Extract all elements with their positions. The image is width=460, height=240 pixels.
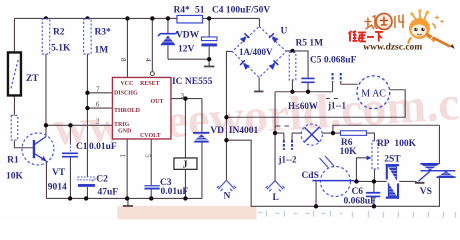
- wire wiper riser: [356, 158, 368, 182]
- svg-text:10K: 10K: [340, 147, 358, 157]
- capacitor C6: [366, 193, 380, 197]
- svg-text:R4*: R4*: [173, 5, 190, 15]
- svg-text:ZT: ZT: [26, 74, 39, 84]
- svg-text:VS: VS: [420, 187, 432, 197]
- wire bottom rail: [46, 197, 202, 199]
- wire lamp right: [322, 132, 340, 134]
- wire pin7: [87, 92, 112, 94]
- svg-text:j1--1: j1--1: [327, 100, 346, 110]
- resistor R6: [340, 131, 366, 136]
- wire enclosure left bottom: [226, 140, 439, 206]
- svg-text:VCC: VCC: [120, 81, 133, 87]
- wire pin8: [126, 18, 128, 77]
- wire pin5 C3: [150, 139, 152, 199]
- bridge diode D3: [240, 60, 250, 70]
- linkage marks j1-2: [275, 126, 289, 128]
- svg-text:RP 100K: RP 100K: [377, 139, 417, 149]
- zener VDW: [158, 31, 178, 45]
- svg-text:1: 1: [118, 154, 126, 158]
- svg-text:R1: R1: [7, 155, 19, 165]
- logo mascot: [408, 9, 455, 49]
- svg-text:www.dzsc.com: www.dzsc.com: [363, 42, 423, 52]
- resistor R3: [84, 19, 92, 54]
- svg-text:IN4001: IN4001: [229, 126, 259, 136]
- svg-text:GND: GND: [118, 128, 132, 134]
- wire VDW C4 bottom: [168, 58, 209, 60]
- svg-text:J: J: [182, 159, 187, 170]
- wire pin4: [151, 18, 153, 71]
- MAIN WIRES: [14, 18, 439, 206]
- wire j1-2 row: [275, 133, 301, 140]
- relay contact j1-1: [333, 73, 341, 82]
- transistor VT: [22, 133, 54, 165]
- svg-text:U: U: [280, 26, 287, 36]
- capacitor C3: [144, 185, 159, 187]
- svg-text:12V: 12V: [178, 44, 195, 54]
- wire C1 branch: [69, 125, 71, 198]
- terminal N: [217, 180, 236, 191]
- svg-text:7: 7: [96, 85, 100, 93]
- wire top rail: [14, 17, 259, 19]
- logo dzsc top right: [348, 9, 455, 52]
- wire VD riser: [201, 99, 203, 199]
- svg-text:N: N: [223, 192, 230, 202]
- svg-text:5: 5: [144, 154, 152, 158]
- logo weiku yixia red: [348, 31, 383, 42]
- svg-text:3: 3: [180, 92, 184, 100]
- wire bridge left to N line: [226, 51, 232, 180]
- wire lamp up branch: [333, 125, 440, 133]
- wire TRIG pin2: [46, 124, 113, 126]
- wire bridge right to C5: [286, 51, 308, 78]
- pin4 reset circle: [150, 72, 154, 76]
- wire C5 bottom stub: [307, 83, 309, 92]
- bridge rectifier: [232, 26, 286, 77]
- wire pin1 gnd: [126, 139, 128, 199]
- bridge diode D4: [268, 60, 278, 70]
- plus mark C2: [91, 178, 94, 181]
- wire gate row: [354, 180, 417, 182]
- svg-text:CVOLT: CVOLT: [140, 133, 161, 139]
- svg-text:1A/400V: 1A/400V: [239, 47, 273, 57]
- wire gate to VS: [415, 182, 425, 184]
- logo sparkles: [435, 15, 444, 23]
- svg-text:4: 4: [144, 58, 152, 62]
- capacitor C5: [301, 78, 314, 82]
- svg-text:47uF: 47uF: [97, 187, 118, 197]
- ground symbol under bridge: [254, 90, 263, 92]
- triac VS: [420, 163, 455, 178]
- ground symbol under rail: [123, 205, 133, 207]
- wire L line: [274, 92, 276, 181]
- wire emitter drop: [45, 161, 47, 199]
- ground symbol under C4: [204, 65, 215, 67]
- svg-text:VDW: VDW: [176, 30, 200, 40]
- svg-text:0.01uF: 0.01uF: [160, 187, 188, 197]
- svg-text:10K: 10K: [6, 171, 24, 181]
- hatch stripes on solid symbols: [161, 39, 454, 195]
- wire gate diagonal: [418, 171, 430, 181]
- capacitor C1: [62, 153, 78, 156]
- svg-text:L: L: [272, 193, 278, 203]
- wire CdS left lead: [315, 181, 317, 207]
- svg-text:C5 0.068uF: C5 0.068uF: [310, 55, 357, 65]
- resistor R5: [289, 52, 296, 79]
- svg-text:0.068uF: 0.068uF: [343, 196, 376, 206]
- wire VS top drop: [438, 125, 440, 163]
- IC NE555 box: [112, 77, 171, 139]
- watermark eeworld: [52, 75, 460, 155]
- wire bridge bottom stem: [258, 77, 260, 91]
- svg-text:VT: VT: [52, 168, 66, 178]
- wire R2 drop collector: [45, 54, 47, 137]
- wire C4 stem and ground stem: [208, 18, 210, 66]
- wire R5 bottom stub: [291, 80, 293, 92]
- svg-text:51: 51: [195, 5, 205, 15]
- svg-text:C1: C1: [76, 142, 88, 152]
- wire J coil line: [184, 99, 186, 199]
- wire R3 drop to C2: [86, 54, 88, 177]
- svg-text:C4 100uF/50V: C4 100uF/50V: [212, 5, 270, 15]
- wire R1 to base: [14, 140, 33, 147]
- relay coil J: [174, 158, 197, 171]
- svg-text:R5 1M: R5 1M: [295, 38, 323, 48]
- svg-text:TRIG: TRIG: [114, 122, 130, 128]
- svg-text:VD: VD: [210, 126, 224, 136]
- svg-text:9014: 9014: [48, 182, 67, 192]
- svg-text:1M: 1M: [94, 45, 108, 55]
- svg-text:R2: R2: [53, 27, 65, 37]
- svg-text:CdS: CdS: [301, 171, 318, 181]
- svg-text:DISCHG: DISCHG: [114, 90, 138, 96]
- wire pin6: [87, 107, 112, 109]
- wire R5 top stub: [291, 51, 293, 53]
- capacitor C4 electrolytic: [201, 37, 217, 47]
- svg-text:IC NE555: IC NE555: [172, 77, 213, 87]
- svg-text:6: 6: [96, 100, 100, 108]
- relay contact j1-2: [284, 140, 292, 150]
- wire rail corner to bridge top: [258, 18, 260, 26]
- lamp H: [301, 124, 322, 145]
- logo text zhao xin pian: [364, 13, 404, 29]
- resistor R4: [177, 15, 203, 23]
- potentiometer RP: [367, 141, 378, 169]
- svg-text:C6: C6: [351, 187, 363, 197]
- bridge diode D2: [269, 33, 279, 43]
- pin number labels: [96, 58, 185, 158]
- wire C2 stem: [86, 187, 88, 198]
- wire ZT to R1: [13, 95, 15, 115]
- wire long mid to motor: [226, 90, 405, 118]
- svg-text:8: 8: [119, 58, 127, 62]
- resistor R1: [11, 115, 18, 140]
- svg-text:2: 2: [96, 117, 100, 125]
- svg-text:OUT: OUT: [150, 99, 163, 105]
- svg-text:R3*: R3*: [94, 27, 111, 37]
- bridge diode D1: [240, 33, 250, 43]
- wire C6 stem: [373, 181, 375, 206]
- svg-text:M AC: M AC: [361, 88, 386, 99]
- svg-text:THROLD: THROLD: [114, 108, 141, 114]
- watermark dots bottom right: [258, 210, 455, 217]
- wire VDW stem: [167, 18, 169, 59]
- resistor R2: [42, 19, 50, 54]
- diode VD: [193, 133, 210, 142]
- svg-text:RESET: RESET: [140, 81, 160, 87]
- svg-text:5.1K: 5.1K: [51, 43, 71, 53]
- linkage marks j1-1: [326, 97, 338, 99]
- photoresistor CdS: [312, 156, 354, 197]
- wire OUT pin3: [171, 98, 202, 100]
- wire left drop to ZT: [13, 18, 15, 52]
- piezo ZT: [8, 52, 21, 95]
- watermark pink band: [117, 206, 256, 220]
- wire gnd below rail: [127, 198, 129, 205]
- capacitor C2 electrolytic: [78, 177, 95, 187]
- motor M AC: [357, 76, 390, 109]
- wire R5C5 bottom: [275, 91, 333, 93]
- labels dark blue: [6, 5, 432, 206]
- svg-text:H≤60W: H≤60W: [288, 101, 318, 111]
- diac 2ST: [386, 164, 399, 199]
- svg-text:C2: C2: [96, 174, 108, 184]
- wire R6 to RP: [366, 133, 374, 141]
- terminal L: [265, 181, 284, 192]
- wire RP bottom stub: [373, 169, 375, 182]
- svg-text:2ST: 2ST: [384, 154, 401, 164]
- svg-text:j1--2: j1--2: [277, 154, 296, 164]
- svg-text:0.01uF: 0.01uF: [89, 142, 117, 152]
